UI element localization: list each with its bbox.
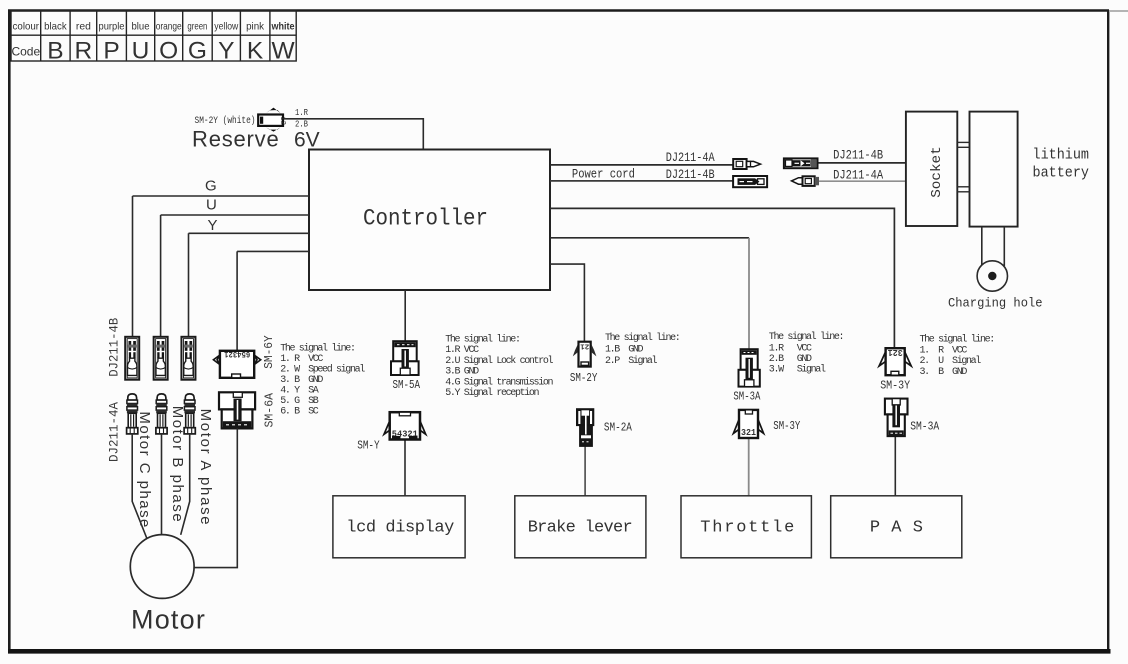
svg-text:SM-Y: SM-Y <box>357 439 380 453</box>
svg-text:3. B GND: 3. B GND <box>280 375 323 386</box>
svg-text:Motor B phase: Motor B phase <box>169 406 186 522</box>
svg-text:4. Y SA: 4. Y SA <box>280 386 319 397</box>
svg-text:SM-6A: SM-6A <box>263 392 277 427</box>
svg-text:Throttle: Throttle <box>700 519 794 538</box>
svg-text:321: 321 <box>741 428 757 438</box>
svg-text:Brake lever: Brake lever <box>528 519 633 538</box>
svg-text:Y: Y <box>208 217 218 234</box>
svg-text:5. G SB: 5. G SB <box>280 396 319 407</box>
svg-text:O: O <box>159 37 178 64</box>
svg-text:The signal line:: The signal line: <box>280 343 354 355</box>
svg-text:21: 21 <box>580 341 590 349</box>
svg-text:U: U <box>206 197 217 214</box>
svg-text:DJ211-4A: DJ211-4A <box>666 151 715 165</box>
svg-text:2.B GND: 2.B GND <box>769 354 812 365</box>
svg-text:Motor A phase: Motor A phase <box>197 409 214 525</box>
svg-text:SM-3A: SM-3A <box>733 390 761 404</box>
svg-text:Motor: Motor <box>131 605 206 635</box>
svg-text:3. B GND: 3. B GND <box>920 367 968 378</box>
svg-text:2. W Speed signal: 2. W Speed signal <box>280 364 365 376</box>
svg-text:SM-6Y: SM-6Y <box>262 335 276 369</box>
svg-text:12: 12 <box>278 117 286 125</box>
svg-text:1.R VCC: 1.R VCC <box>769 344 812 355</box>
svg-text:1.R: 1.R <box>295 108 308 118</box>
svg-text:Y: Y <box>218 37 234 64</box>
svg-text:R: R <box>75 37 93 64</box>
svg-text:W: W <box>271 37 295 64</box>
svg-text:Power cord: Power cord <box>572 168 635 182</box>
svg-text:Controller: Controller <box>363 206 488 232</box>
svg-text:654321: 654321 <box>224 349 250 359</box>
svg-text:pink: pink <box>246 21 265 33</box>
svg-text:The signal line:: The signal line: <box>605 332 679 344</box>
svg-text:SM-2Y: SM-2Y <box>570 372 598 385</box>
svg-text:2.U Signal Lock control: 2.U Signal Lock control <box>445 355 553 367</box>
svg-text:K: K <box>247 37 264 64</box>
svg-text:U: U <box>132 37 150 64</box>
svg-text:3.B GND: 3.B GND <box>445 367 479 378</box>
svg-text:6V: 6V <box>294 129 320 152</box>
svg-text:6. B SC: 6. B SC <box>280 407 319 418</box>
svg-text:DJ211-4B: DJ211-4B <box>833 149 883 163</box>
svg-text:4.G Signal transmission: 4.G Signal transmission <box>445 376 553 388</box>
svg-text:white: white <box>271 21 295 33</box>
svg-text:SM-5A: SM-5A <box>393 379 421 392</box>
svg-text:blue: blue <box>132 21 150 33</box>
svg-text:Socket: Socket <box>930 146 945 198</box>
svg-text:red: red <box>76 21 91 33</box>
svg-text:Code: Code <box>11 45 40 59</box>
svg-text:2.P Signal: 2.P Signal <box>605 355 658 367</box>
svg-text:black: black <box>44 21 67 33</box>
svg-text:colour: colour <box>13 21 40 33</box>
svg-text:P: P <box>103 37 119 64</box>
svg-text:1. R VCC: 1. R VCC <box>280 354 323 365</box>
svg-text:SM-3Y: SM-3Y <box>773 419 800 433</box>
svg-text:G: G <box>205 178 217 195</box>
svg-text:B: B <box>47 37 63 64</box>
svg-text:The signal line:: The signal line: <box>920 334 994 346</box>
svg-text:1.R VCC: 1.R VCC <box>445 345 479 356</box>
svg-text:G: G <box>188 37 207 64</box>
svg-text:5.Y Signal reception: 5.Y Signal reception <box>445 387 539 399</box>
svg-text:DJ211-4A: DJ211-4A <box>833 168 883 182</box>
svg-text:yellow: yellow <box>214 21 238 33</box>
svg-text:DJ211-4B: DJ211-4B <box>666 168 715 182</box>
svg-text:Reserve: Reserve <box>192 127 280 152</box>
svg-text:The signal line:: The signal line: <box>445 334 519 346</box>
svg-text:DJ211-4B: DJ211-4B <box>108 317 122 376</box>
svg-text:SM-2A: SM-2A <box>604 421 633 435</box>
svg-text:2. U Signal: 2. U Signal <box>920 355 982 367</box>
svg-text:DJ211-4A: DJ211-4A <box>108 402 122 462</box>
svg-text:battery: battery <box>1033 166 1090 182</box>
svg-text:SM-2Y (white): SM-2Y (white) <box>195 115 256 127</box>
svg-text:1.B GND: 1.B GND <box>605 345 644 356</box>
svg-text:lcd display: lcd display <box>346 519 454 538</box>
svg-text:Motor C phase: Motor C phase <box>136 411 153 527</box>
svg-text:orange: orange <box>156 21 182 33</box>
svg-text:SM-3A: SM-3A <box>910 420 940 434</box>
svg-text:SM-3Y: SM-3Y <box>880 380 910 393</box>
svg-text:green: green <box>187 21 207 33</box>
svg-text:Charging hole: Charging hole <box>948 296 1043 311</box>
svg-text:3.W Signal: 3.W Signal <box>769 364 826 376</box>
svg-text:1. R VCC: 1. R VCC <box>920 346 968 357</box>
svg-text:321: 321 <box>887 347 903 357</box>
svg-text:The signal line:: The signal line: <box>769 331 843 343</box>
svg-text:lithium: lithium <box>1033 148 1090 164</box>
svg-text:purple: purple <box>99 21 125 33</box>
svg-text:P A S: P A S <box>870 519 923 538</box>
